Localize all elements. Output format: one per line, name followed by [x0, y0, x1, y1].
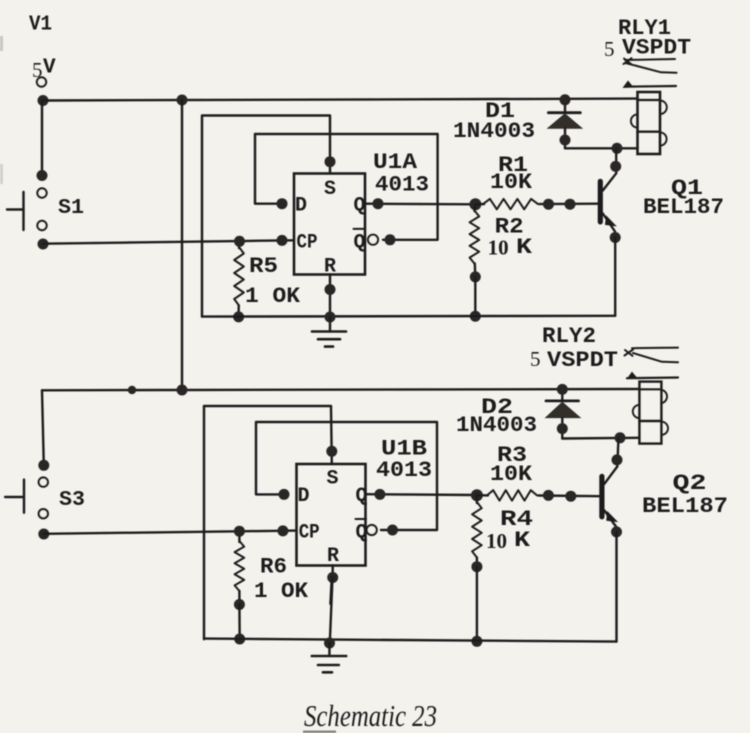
svg-text:R5: R5	[249, 254, 278, 279]
wire coil bottom 2	[562, 437, 639, 440]
junction dot emitter 1	[610, 232, 621, 243]
junction dot Q output U1A	[373, 198, 384, 209]
resistor R2 10K	[473, 204, 476, 211]
svg-text:1 OK: 1 OK	[254, 579, 309, 604]
svg-text:4013: 4013	[376, 458, 432, 483]
ground rail 1	[202, 315, 615, 318]
resistor R5 1 0K	[238, 241, 241, 248]
junction dot top rail at long vertical	[177, 95, 188, 106]
junction dot emitter 2	[611, 526, 622, 537]
junction dot collector 2	[612, 454, 623, 465]
junction dot D pin 1	[277, 198, 288, 209]
wire rail2 to S3	[42, 390, 44, 465]
diode D1 1N4003	[564, 100, 566, 112]
switch S3 actuator	[23, 480, 25, 513]
junction dot R6 at rail	[234, 634, 245, 645]
junction dot coil bottom / collector 2	[615, 432, 626, 443]
junction dot Q/R1/R2 node	[469, 198, 481, 210]
node 5V terminal (open circle)	[37, 77, 46, 86]
junction dot 5V	[38, 95, 49, 106]
ground symbol 2	[328, 643, 331, 656]
junction dot Q/R3/R4 node	[471, 489, 483, 501]
switch S1 lower contact	[37, 221, 46, 230]
svg-text:10K: 10K	[490, 170, 533, 195]
wire Q output U1B to R3	[366, 493, 479, 496]
junction dot S pin 1	[325, 156, 336, 167]
wire inner loop 1 (Qbar to D)	[255, 134, 438, 240]
ground symbol 1	[329, 317, 331, 332]
junction dot D2 top	[557, 384, 568, 395]
junction dot small on rail 2	[128, 386, 136, 394]
junction dot below S1	[38, 239, 49, 250]
svg-text:Q: Q	[354, 195, 366, 218]
wire R2 to ground rail 1	[474, 277, 476, 316]
svg-text:V1: V1	[29, 14, 52, 37]
svg-text:Q2: Q2	[673, 471, 707, 496]
transistor Q1 BEL187	[598, 181, 603, 222]
junction dot collector 1	[610, 161, 621, 172]
junction dot coil bottom / collector 1	[612, 143, 623, 154]
svg-text:10K: 10K	[490, 462, 533, 487]
junction dot R4 bottom	[471, 561, 482, 572]
svg-text:10: 10	[488, 236, 509, 260]
junction dot R4 at rail	[471, 636, 482, 647]
junction dot R pin stub 2	[327, 572, 338, 583]
svg-text:Schematic 23: Schematic 23	[304, 698, 437, 733]
wire V1 to S1	[41, 101, 43, 177]
svg-text:VSPDT: VSPDT	[547, 348, 618, 373]
svg-text:K: K	[516, 235, 533, 260]
junction dot ground node 1	[325, 312, 336, 323]
svg-text:VSPDT: VSPDT	[622, 36, 691, 61]
svg-text:1 OK: 1 OK	[245, 284, 301, 309]
junction dot R pin stub 1	[325, 284, 336, 295]
inverter bubble Qbar U1A	[368, 235, 378, 245]
resistor R1 10K	[483, 199, 538, 209]
switch S3 upper contact	[39, 478, 48, 487]
junction dot D1 top	[560, 94, 571, 105]
svg-text:CP: CP	[297, 232, 318, 255]
svg-text:K: K	[514, 528, 531, 553]
transistor Q2 BEL187	[599, 476, 604, 517]
junction dot R3-base a	[543, 490, 554, 501]
junction dot R2 bottom	[470, 271, 481, 282]
junction dot CP pin 2	[277, 525, 288, 536]
wire collector riser 1	[615, 148, 617, 173]
wire emitter to rail 1	[614, 238, 616, 316]
junction dot R1-base b	[565, 199, 576, 210]
svg-text:BEL187: BEL187	[642, 494, 728, 519]
wire inner loop 2 (Qbar to D)	[256, 422, 437, 530]
wire long vertical feed to circuit 2	[181, 100, 183, 390]
svg-text:5: 5	[530, 347, 541, 371]
wire top rail 1	[43, 99, 638, 101]
junction dot on Qbar wire 1	[385, 234, 396, 245]
junction dot D1 bottom	[560, 135, 571, 146]
svg-text:Q: Q	[356, 522, 368, 545]
junction dot R5 at rail	[233, 311, 244, 322]
relay RLY1 contacts	[625, 59, 675, 60]
wire R6 to rail 2	[238, 605, 241, 640]
relay RLY2 coil	[639, 382, 661, 444]
svg-text:R6: R6	[260, 555, 287, 580]
svg-text:S: S	[327, 468, 339, 491]
wire Q1A output to R1	[365, 202, 476, 205]
junction dot CP pin 1	[277, 235, 288, 246]
junction dot R6 top	[234, 526, 245, 537]
wire R pin to rail 2 (double stroke)	[330, 578, 333, 644]
wire collector riser 2	[617, 438, 618, 467]
junction dot on Qbar wire 2	[387, 525, 398, 536]
junction dot Q output U1B	[374, 489, 385, 500]
junction dot R6 bottom	[234, 599, 245, 610]
junction dot S pin 2	[326, 446, 337, 457]
wire top rail 2	[42, 389, 639, 390]
ground rail 2	[204, 639, 617, 642]
svg-text:D: D	[298, 485, 310, 508]
wire S1 to CP (clock line 1)	[43, 240, 294, 243]
svg-text:CP: CP	[299, 522, 320, 545]
svg-text:S: S	[324, 178, 336, 201]
relay RLY1 coil	[638, 92, 661, 154]
wire R2 lower	[474, 264, 477, 278]
junction dot R3-base b	[565, 491, 576, 502]
svg-text:1N4003: 1N4003	[456, 413, 537, 438]
wire R pin U1B stub	[332, 566, 334, 578]
flip-flop U1B box	[297, 464, 366, 566]
svg-text:1N4003: 1N4003	[453, 119, 535, 144]
flip-flop U1A box	[294, 174, 365, 275]
diode D2 1N4003	[561, 390, 563, 400]
scan artifact bottom edge	[303, 731, 336, 733]
wire R pin U1A to rail	[329, 275, 331, 318]
inverter bubble Qbar U1B	[367, 525, 377, 535]
junction dot R2 at rail	[470, 311, 481, 322]
resistor R6 1 0K	[238, 531, 240, 542]
svg-text:Q: Q	[356, 485, 368, 508]
wire R4 to rail 2	[476, 567, 478, 641]
svg-text:5: 5	[604, 37, 615, 61]
junction dot below S3	[38, 529, 49, 540]
wire emitter to rail 2	[615, 532, 617, 642]
svg-text:U1A: U1A	[373, 150, 418, 175]
wire R1 to Q1 base	[540, 202, 598, 205]
junction dot ground node 2	[324, 638, 335, 649]
junction dot above S3	[38, 460, 49, 471]
wire R4 lower	[476, 558, 478, 568]
svg-text:D: D	[295, 195, 307, 218]
switch S1 actuator	[22, 192, 24, 230]
wire outer loop 2 (S to ground rail)	[204, 406, 332, 639]
svg-text:4013: 4013	[375, 173, 429, 198]
junction dot R1-base a	[543, 199, 554, 210]
scan artifact left edge a	[0, 36, 3, 51]
wire R3 to Q2 base	[539, 494, 600, 497]
junction dot R5 top	[234, 236, 245, 247]
relay RLY2 contacts	[632, 347, 678, 350]
resistor R3 10K	[487, 490, 537, 500]
svg-text:10: 10	[486, 529, 507, 553]
junction dot rail 2 at long vertical	[177, 385, 188, 396]
wire S3 to CP (clock line 2)	[44, 531, 297, 534]
junction dot above S1	[37, 170, 48, 181]
switch S1 upper contact	[37, 188, 46, 197]
svg-text:S1: S1	[58, 197, 84, 220]
scan artifact left edge b	[0, 164, 3, 184]
svg-text:Q: Q	[354, 232, 366, 255]
resistor R4 10 K	[476, 495, 478, 503]
wire coil bottom 1	[565, 147, 638, 149]
wire outer loop 1 (S to ground rail)	[202, 116, 330, 317]
svg-text:RLY2: RLY2	[542, 324, 596, 349]
junction dot D2 bottom	[557, 423, 568, 434]
svg-text:V: V	[43, 57, 56, 80]
svg-text:BEL187: BEL187	[643, 195, 724, 220]
junction dot D pin 2	[279, 489, 290, 500]
switch S3 lower contact	[39, 509, 48, 518]
svg-text:S3: S3	[59, 489, 85, 512]
